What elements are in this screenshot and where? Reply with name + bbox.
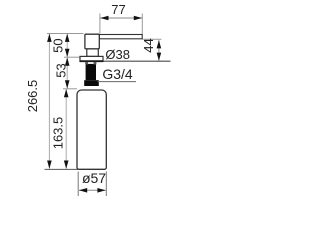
svg-text:266.5: 266.5 bbox=[25, 80, 40, 113]
svg-text:ø57: ø57 bbox=[82, 170, 106, 186]
svg-text:G3/4: G3/4 bbox=[102, 66, 133, 82]
svg-text:77: 77 bbox=[111, 2, 125, 17]
svg-text:50: 50 bbox=[51, 38, 66, 52]
svg-text:53: 53 bbox=[54, 63, 69, 77]
svg-text:163.5: 163.5 bbox=[51, 117, 66, 150]
svg-text:44: 44 bbox=[141, 38, 156, 52]
svg-text:Ø38: Ø38 bbox=[105, 47, 130, 62]
